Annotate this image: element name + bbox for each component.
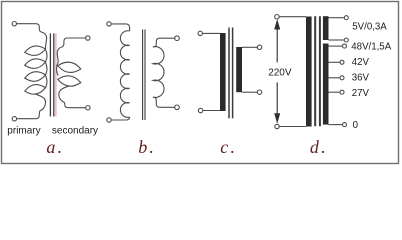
- primary coil P loop1: [24, 44, 46, 57]
- tap wire 48V: [329, 45, 343, 47]
- primary coil scallop chain: [45, 49, 47, 88]
- terminal c primary bottom: [198, 108, 202, 112]
- wire b secondary bottom lead: [153, 97, 175, 107]
- wire secondary top lead with hook: [57, 38, 85, 62]
- svg-text:42V: 42V: [352, 57, 370, 68]
- core c line2: [232, 28, 234, 119]
- terminal d primary bottom: [275, 124, 279, 128]
- secondary coil b bumps: [153, 47, 164, 98]
- tap terminal 27V: [340, 90, 344, 94]
- wire primary top lead with hook: [17, 24, 47, 50]
- wire b primary bottom lead: [111, 117, 129, 120]
- primary coil P loop4: [24, 83, 46, 96]
- wire b primary top lead: [111, 24, 129, 31]
- wire b secondary top lead: [153, 38, 175, 47]
- terminal a secondary bottom: [86, 106, 90, 110]
- svg-text:5V/0,3A: 5V/0,3A: [352, 21, 387, 32]
- wire c secondary bottom: [242, 91, 257, 93]
- wire primary bottom lead with hook: [17, 94, 46, 118]
- svg-text:a.: a.: [46, 137, 64, 157]
- terminal c secondary bottom: [257, 90, 261, 94]
- svg-text:36V: 36V: [352, 73, 370, 84]
- secondary coil S loop2: [57, 74, 81, 87]
- terminal a secondary top: [86, 36, 90, 40]
- terminal c secondary top: [257, 45, 261, 49]
- core a red line: [55, 33, 57, 116]
- terminal c primary top: [198, 31, 202, 35]
- wire c secondary top: [242, 46, 257, 48]
- tap wire 0: [329, 124, 343, 126]
- terminal b primary bottom: [107, 118, 111, 122]
- core b line2: [144, 30, 146, 121]
- core b line1: [142, 30, 144, 121]
- tap wire 42V: [329, 61, 341, 63]
- secondary coil S loop1: [57, 61, 81, 74]
- core d line1: [314, 16, 316, 126]
- terminal a primary bottom: [12, 117, 16, 121]
- tap terminal 5V bottom: [344, 38, 348, 42]
- arrowhead down: [274, 113, 280, 124]
- primary coil b bumps: [120, 31, 129, 118]
- tap terminal 48V: [343, 44, 347, 48]
- primary coil P loop2: [24, 57, 46, 70]
- secondary coil scallop chain: [57, 62, 59, 76]
- tap wire 27V: [329, 91, 341, 93]
- terminal b secondary top: [175, 36, 180, 41]
- tap wire 5V bottom: [329, 39, 345, 41]
- wire secondary bottom lead with hook: [59, 86, 86, 108]
- wire c primary top: [202, 32, 220, 34]
- border frame: [2, 2, 399, 164]
- svg-text:220V: 220V: [268, 68, 292, 79]
- secondary winding bar d segment1 (5V): [323, 16, 329, 40]
- terminal a primary top: [12, 22, 16, 26]
- core a line2: [53, 33, 55, 116]
- core d line2: [319, 16, 321, 126]
- tap terminal 42V: [340, 60, 344, 64]
- primary coil P loop3: [24, 70, 46, 83]
- svg-text:27V: 27V: [352, 88, 370, 99]
- secondary winding bar d segment2: [323, 44, 329, 125]
- 220V measuring arrow shaft bottom: [276, 83, 278, 122]
- wire c primary bottom: [203, 110, 220, 112]
- core c line1: [228, 28, 230, 119]
- core a line1: [49, 33, 51, 116]
- wire d primary top: [279, 16, 306, 18]
- terminal d primary top: [275, 15, 279, 19]
- svg-text:c.: c.: [220, 137, 237, 157]
- svg-text:b.: b.: [138, 137, 156, 157]
- svg-text:48V/1,5A: 48V/1,5A: [351, 41, 391, 52]
- tap terminal 0: [343, 123, 347, 127]
- arrowhead up: [274, 19, 280, 30]
- tap terminal 5V top: [344, 16, 348, 20]
- svg-text:d.: d.: [310, 137, 328, 157]
- primary winding bar d: [306, 17, 312, 127]
- tap wire 36V: [329, 77, 341, 79]
- tap wire 5V top: [329, 17, 345, 19]
- secondary winding bar c: [236, 47, 242, 92]
- svg-text:0: 0: [353, 120, 359, 131]
- 220V measuring arrow shaft top: [276, 22, 278, 63]
- primary winding bar c: [220, 33, 226, 111]
- terminal b secondary bottom: [175, 105, 180, 110]
- tap terminal 36V: [340, 76, 344, 80]
- wire d primary bottom: [279, 126, 306, 128]
- svg-text:secondary: secondary: [52, 126, 98, 137]
- svg-text:primary: primary: [7, 126, 40, 137]
- terminal b primary top: [107, 22, 111, 26]
